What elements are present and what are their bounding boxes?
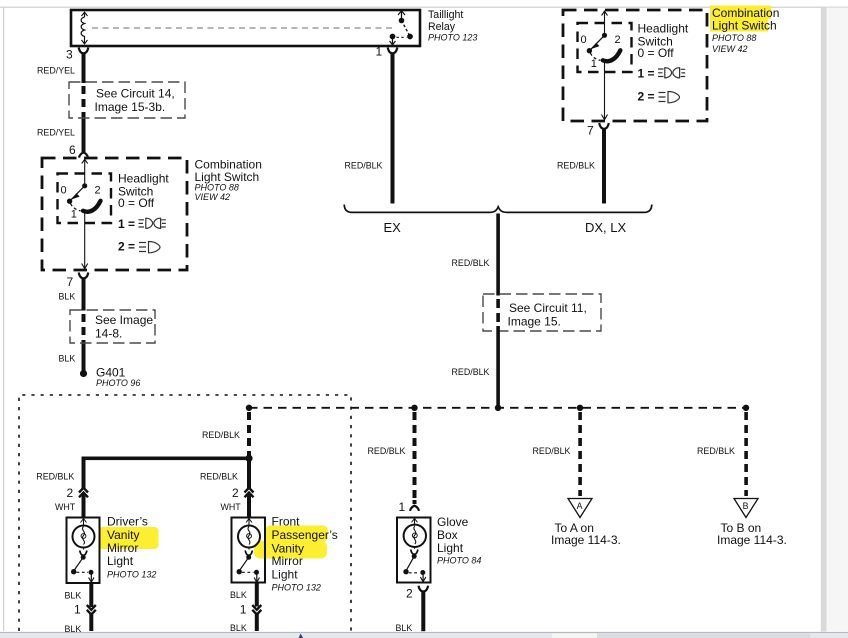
- svg-text:0: 0: [61, 185, 67, 197]
- mouse cursor: [299, 634, 304, 638]
- passenger lamp switch: [237, 551, 260, 583]
- bottom window strip: [0, 633, 848, 638]
- wire BLK upper: [82, 278, 86, 311]
- wire dashed RED/BLK to B: [744, 412, 748, 496]
- connector fork pin 2 glove: [419, 586, 429, 592]
- parking lamp icon (1=) right: [658, 68, 685, 78]
- inline connector pin 2 driver: [79, 488, 88, 498]
- svg-text:BLK: BLK: [230, 590, 247, 600]
- connector fork pin 3: [79, 48, 89, 54]
- svg-text:2 =: 2 =: [118, 239, 135, 253]
- driver lamp bulb: [73, 518, 95, 550]
- driver lamp switch: [72, 551, 95, 583]
- svg-text:2: 2: [406, 587, 413, 601]
- svg-text:1: 1: [591, 58, 597, 70]
- svg-text:BLK: BLK: [65, 591, 82, 601]
- svg-text:1: 1: [74, 603, 81, 617]
- driver lamp box: [67, 518, 100, 584]
- svg-text:Vanity: Vanity: [107, 528, 139, 542]
- svg-text:Light: Light: [107, 554, 134, 568]
- svg-text:VIEW 42: VIEW 42: [712, 44, 748, 54]
- glove lamp switch: [404, 550, 426, 582]
- svg-text:RED/BLK: RED/BLK: [345, 161, 383, 171]
- wire RED/YEL upper: [82, 53, 86, 84]
- svg-text:0 = Off: 0 = Off: [118, 196, 155, 210]
- svg-text:3: 3: [66, 48, 73, 62]
- svg-text:1: 1: [376, 44, 383, 58]
- taillight relay box: [71, 10, 420, 46]
- svg-text:WHT: WHT: [221, 502, 242, 512]
- svg-text:See Circuit 14,: See Circuit 14,: [96, 87, 175, 101]
- svg-text:DX, LX: DX, LX: [585, 220, 627, 235]
- headlight switch outer dashed box: [42, 158, 187, 270]
- big dotted option box: [19, 395, 351, 631]
- wire BLK glove bottom: [421, 591, 425, 632]
- combination light switch caption (left): [195, 158, 262, 202]
- svg-text:1: 1: [71, 209, 77, 221]
- svg-text:6: 6: [69, 143, 76, 157]
- svg-text:RED/BLK: RED/BLK: [368, 446, 406, 456]
- svg-text:Glove: Glove: [437, 515, 469, 529]
- headlight switch inner dashed box (right): [578, 23, 632, 72]
- svg-text:WHT: WHT: [55, 502, 76, 512]
- wire horizontal to driver vanity: [82, 457, 251, 461]
- wire RED/YEL lower: [82, 119, 86, 152]
- svg-text:PHOTO 88: PHOTO 88: [195, 182, 239, 192]
- taillight relay label: [428, 9, 477, 43]
- wire WHT driver: [82, 495, 86, 519]
- svg-text:RED/BLK: RED/BLK: [533, 446, 571, 456]
- relay switch: [390, 11, 413, 45]
- wire from brace RED/BLK: [496, 214, 500, 296]
- passenger lamp caption: [272, 515, 338, 593]
- svg-text:VIEW 42: VIEW 42: [195, 192, 231, 202]
- svg-text:RED/BLK: RED/BLK: [202, 430, 240, 440]
- svg-text:BLK: BLK: [59, 291, 76, 301]
- see circuit 14 ref box: [69, 82, 185, 118]
- svg-text:Image 114-3.: Image 114-3.: [717, 533, 787, 547]
- svg-text:2: 2: [615, 34, 621, 46]
- wire dashed through see image box: [82, 314, 86, 346]
- svg-text:Headlight: Headlight: [638, 21, 689, 35]
- svg-text:PHOTO 84: PHOTO 84: [437, 555, 481, 565]
- connector A triangle: [568, 499, 592, 518]
- glove lamp bulb: [404, 518, 426, 549]
- connector B triangle: [734, 499, 758, 518]
- wire dashed through circuit 11 box: [496, 299, 500, 322]
- scrollbar band right: [827, 8, 848, 632]
- svg-text:RED/BLK: RED/BLK: [557, 161, 595, 171]
- wire dashed through ref box: [82, 86, 86, 119]
- svg-text:RED/YEL: RED/YEL: [37, 66, 75, 76]
- relay coil: [81, 12, 87, 44]
- page frame left rule: [3, 7, 4, 631]
- wire BLK lower: [82, 346, 86, 371]
- wire dashed horizontal distribution: [249, 407, 746, 409]
- switch wiper assembly: [67, 159, 100, 269]
- svg-text:Mirror: Mirror: [107, 541, 138, 555]
- svg-text:RED/BLK: RED/BLK: [36, 471, 74, 481]
- connector fork pin 1 relay: [388, 48, 398, 54]
- svg-text:1: 1: [399, 500, 406, 514]
- inline connector pin 1 driver: [87, 605, 96, 615]
- driver lamp caption: [107, 515, 156, 580]
- see image 14-8 ref box: [70, 310, 155, 343]
- svg-text:1 =: 1 =: [118, 217, 135, 231]
- headlight switch outer dashed box (right): [563, 10, 707, 121]
- wire BLK passenger below lamp: [255, 583, 259, 607]
- headlight switch caption (right): [638, 21, 689, 103]
- svg-text:7: 7: [587, 124, 594, 138]
- svg-text:1: 1: [240, 603, 247, 617]
- see circuit 11 ref box: [483, 294, 601, 331]
- passenger lamp box: [232, 518, 266, 583]
- svg-text:Relay: Relay: [428, 21, 456, 33]
- svg-text:RED/BLK: RED/BLK: [697, 446, 735, 456]
- wire driver drop: [82, 458, 86, 488]
- brace: [344, 205, 652, 213]
- svg-text:BLK: BLK: [59, 353, 76, 363]
- wire dashed RED/BLK to A: [578, 412, 582, 496]
- headlight switch inner dashed box: [58, 174, 112, 224]
- svg-text:Front: Front: [272, 515, 301, 529]
- svg-text:2: 2: [232, 486, 239, 500]
- svg-text:PHOTO 123: PHOTO 123: [428, 32, 477, 42]
- wire BLK driver bottom: [89, 613, 93, 632]
- svg-text:Taillight: Taillight: [428, 9, 463, 21]
- headlamp icon (2=) right: [659, 92, 680, 103]
- svg-text:Image 114-3.: Image 114-3.: [551, 533, 621, 547]
- svg-text:PHOTO 88: PHOTO 88: [712, 33, 756, 43]
- svg-text:PHOTO 132: PHOTO 132: [272, 583, 321, 593]
- switch wiper assembly (right): [587, 11, 620, 120]
- svg-text:Image 15-3b.: Image 15-3b.: [95, 100, 166, 114]
- connector fork pin 7: [79, 273, 89, 279]
- svg-text:RED/BLK: RED/BLK: [200, 471, 238, 481]
- svg-text:Headlight: Headlight: [118, 171, 169, 185]
- inline connector pin 2 passenger: [245, 488, 254, 498]
- svg-text:Box: Box: [437, 528, 458, 542]
- svg-text:PHOTO 96: PHOTO 96: [96, 378, 140, 388]
- page frame top rule: [0, 7, 848, 8]
- wire BLK driver below lamp: [89, 583, 93, 607]
- svg-text:Passenger’s: Passenger’s: [272, 528, 338, 542]
- svg-text:Driver’s: Driver’s: [107, 515, 148, 529]
- svg-text:0: 0: [581, 34, 587, 46]
- svg-text:2: 2: [67, 486, 74, 500]
- junction dots: [246, 405, 252, 411]
- svg-text:BLK: BLK: [65, 624, 82, 634]
- wire relay to bus RED/BLK: [391, 53, 395, 204]
- svg-text:Light: Light: [272, 567, 299, 581]
- svg-text:1 =: 1 =: [638, 66, 655, 80]
- svg-text:EX: EX: [384, 220, 402, 235]
- svg-text:See Image: See Image: [95, 313, 153, 327]
- svg-text:2: 2: [95, 185, 101, 197]
- connector fork pin 7 right: [599, 123, 609, 129]
- svg-text:Image 15.: Image 15.: [508, 314, 561, 328]
- inline connector pin 1 passenger: [252, 605, 261, 615]
- headlight switch caption: [118, 171, 169, 253]
- svg-text:PHOTO 132: PHOTO 132: [107, 570, 156, 580]
- connector fork pin 6: [79, 152, 88, 157]
- wire BLK passenger bottom: [255, 613, 259, 632]
- combination light switch caption (right, highlighted): [712, 6, 779, 54]
- svg-text:BLK: BLK: [396, 623, 413, 633]
- glove lamp caption: [437, 515, 481, 565]
- svg-text:2 =: 2 =: [638, 89, 655, 103]
- svg-text:7: 7: [67, 275, 74, 289]
- svg-text:See Circuit 11,: See Circuit 11,: [509, 301, 587, 315]
- svg-text:Mirror: Mirror: [272, 554, 303, 568]
- highlight combination light switch (top right): [710, 6, 771, 20]
- svg-text:A: A: [577, 501, 583, 511]
- highlight passenger vanity: [265, 526, 328, 543]
- wire right switch to bus RED/BLK: [602, 128, 606, 204]
- svg-text:BLK: BLK: [230, 623, 247, 633]
- svg-text:Light: Light: [437, 541, 464, 555]
- svg-text:Light Switch: Light Switch: [712, 19, 777, 33]
- wire RED/BLK lower center: [496, 326, 500, 406]
- relay internal dashed link: [92, 27, 396, 29]
- highlight driver vanity: [99, 527, 159, 549]
- connector fork pin 1 glove: [410, 506, 419, 511]
- parking lamp icon (1=): [139, 218, 166, 228]
- ground G401: [80, 370, 87, 377]
- svg-text:RED/BLK: RED/BLK: [452, 258, 490, 268]
- junction dot vanity: [245, 455, 252, 462]
- svg-text:14-8.: 14-8.: [95, 326, 122, 340]
- wire dashed RED/BLK vanity feed: [247, 412, 251, 456]
- wire passenger drop: [247, 458, 251, 488]
- svg-text:RED/YEL: RED/YEL: [37, 128, 75, 138]
- wire WHT passenger: [247, 495, 251, 519]
- wire dashed RED/BLK glove feed: [413, 412, 417, 504]
- svg-text:0 = Off: 0 = Off: [638, 46, 675, 60]
- svg-text:B: B: [743, 501, 749, 511]
- svg-text:RED/BLK: RED/BLK: [452, 367, 490, 377]
- headlamp icon (2=): [139, 242, 160, 253]
- glove lamp box: [397, 518, 431, 583]
- passenger lamp bulb: [238, 518, 260, 550]
